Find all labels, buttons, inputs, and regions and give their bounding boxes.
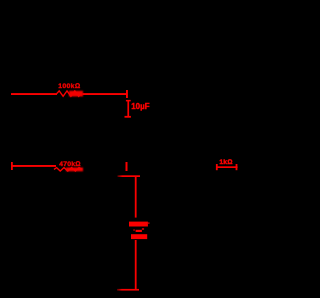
plate bar node C bbox=[118, 175, 141, 177]
resistor R3 body line bbox=[216, 166, 238, 168]
battery BT1 label bottom line bbox=[131, 234, 147, 239]
terminal bar node A (right end of R1 wire) bbox=[126, 90, 128, 98]
wire R1 right lead bbox=[83, 93, 127, 95]
ground bar node D bbox=[117, 289, 139, 291]
battery BT1 label top line bbox=[129, 222, 148, 227]
resistor R2 zigzag bbox=[54, 168, 82, 171]
wire R1 left lead bbox=[11, 93, 57, 95]
capacitor C1 top cap bbox=[126, 100, 131, 102]
capacitor C1 body line bbox=[127, 100, 129, 117]
resistor R1 body smudge bbox=[69, 91, 83, 97]
wire battery top lead bbox=[135, 177, 137, 218]
terminal bar left end of R2 bbox=[11, 162, 13, 170]
capacitor C1 bottom cap bbox=[125, 116, 131, 118]
resistor R1 zigzag bbox=[57, 91, 82, 96]
resistor R2 body smudge bbox=[66, 168, 83, 172]
svg-text:1kΩ: 1kΩ bbox=[219, 159, 232, 166]
wire battery bottom lead bbox=[135, 240, 137, 290]
svg-text:100kΩ: 100kΩ bbox=[58, 83, 80, 90]
battery BT1 label middle marks bbox=[133, 229, 134, 230]
resistor R3 left terminal bar bbox=[216, 164, 218, 170]
svg-text:470kΩ: 470kΩ bbox=[59, 161, 80, 168]
wire stub node B bbox=[126, 162, 128, 171]
wire R2 left lead bbox=[13, 165, 57, 167]
svg-text:10µF: 10µF bbox=[131, 102, 150, 111]
resistor R3 right terminal bar bbox=[236, 164, 238, 170]
